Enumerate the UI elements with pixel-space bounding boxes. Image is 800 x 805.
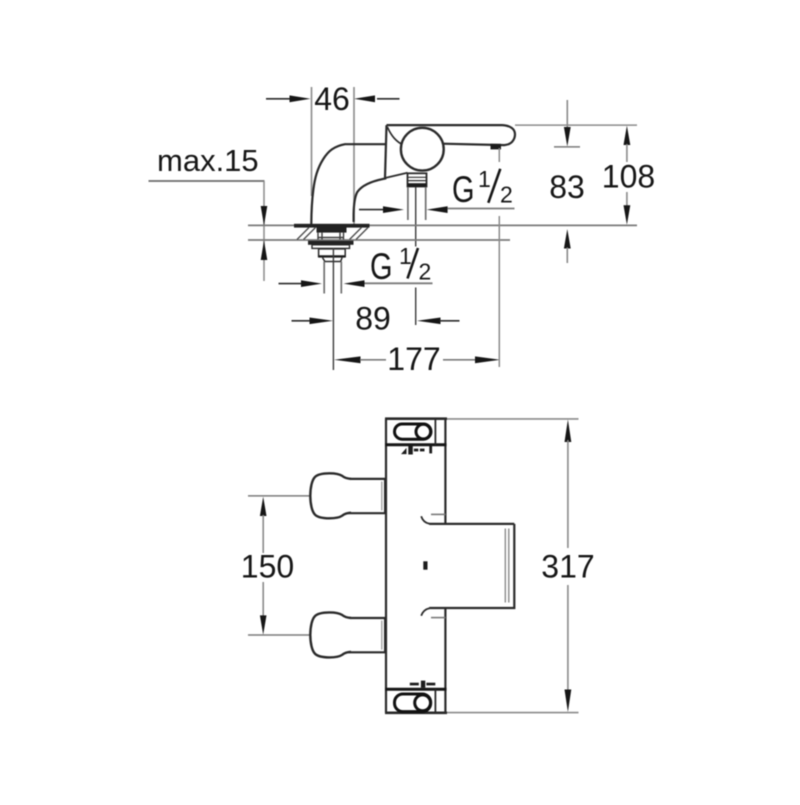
svg-text:150: 150 [241, 549, 294, 585]
dimension 177 dimension line right segment [443, 356, 500, 363]
deck top line [248, 224, 637, 226]
bottom bracket slot [395, 694, 431, 712]
deck hatching left [297, 228, 316, 240]
top bracket heavy separator [385, 443, 447, 446]
upper handle knob [310, 473, 351, 518]
svg-text:108: 108 [602, 159, 655, 195]
extension block top edge [429, 523, 514, 525]
dimension 46 right extension line / spout right edge [353, 87, 355, 225]
dimension 89 right arrow [417, 318, 460, 325]
upper handle neck inner line [381, 482, 383, 511]
top fillet tick [431, 513, 446, 515]
bottom marker cluster [410, 681, 436, 688]
dimension 150 line lower segment [260, 582, 267, 635]
housing bottom edge [385, 173, 408, 178]
dimension 317 top extension line [447, 418, 579, 420]
svg-text:2: 2 [500, 182, 513, 208]
spout inner curve [354, 178, 387, 222]
dimension 108 upper arrow [624, 126, 631, 162]
deck hatching right [350, 228, 369, 240]
dimension 108 top extension line [515, 124, 637, 126]
top marker cluster [401, 446, 432, 455]
dimension 108 lower arrow [624, 192, 631, 225]
top fillet arc [421, 516, 429, 524]
taper below lock nut [323, 258, 343, 262]
faucet body top line [387, 124, 503, 126]
max.15 leader underline [149, 180, 265, 182]
svg-text:177: 177 [387, 341, 440, 377]
knob circle [401, 128, 444, 171]
bottom bracket circle [415, 695, 431, 711]
dimension 83 upper arrow [564, 100, 571, 147]
extension block inner double line [505, 529, 509, 603]
dimension 177 dimension line left segment [334, 356, 386, 363]
dimension 317 bottom extension line [447, 712, 579, 714]
nut below knob [408, 173, 427, 186]
lower G 1/2 left arrow [279, 280, 323, 287]
bottom bracket inner vertical [434, 689, 436, 713]
threaded shank in hole [317, 227, 347, 232]
svg-text:1: 1 [399, 243, 412, 269]
svg-text:89: 89 [355, 301, 391, 337]
upper handle centerline [248, 495, 310, 497]
svg-text:G: G [452, 169, 475, 210]
deck bottom line [248, 239, 510, 241]
svg-text:max.15: max.15 [157, 143, 259, 178]
top bracket circle [416, 424, 431, 439]
upper handle neck [345, 479, 386, 513]
bottom bracket heavy separator [385, 688, 447, 691]
max.15 up arrow [261, 241, 268, 261]
bottom fillet arc [421, 608, 429, 616]
body bar outline [386, 419, 445, 713]
dimension 46 left extension line [311, 87, 313, 196]
dimension 150 line upper segment [260, 497, 267, 553]
max.15 down arrow [261, 206, 268, 226]
upper G 1/2 right arrow with tail [427, 206, 515, 213]
top bracket inner vertical [434, 419, 436, 445]
outlet extension line [498, 148, 500, 367]
backnut [308, 241, 354, 245]
escutcheon flange [294, 224, 370, 228]
dimension 83 outlet reference line [554, 146, 580, 148]
upper G 1/2 left arrow [359, 206, 404, 213]
svg-text:317: 317 [541, 549, 594, 585]
shoulder curve between front edge and knob [387, 127, 403, 145]
dimension 46 left arrow [266, 95, 311, 102]
dimension 317 lower arrow and line [565, 585, 572, 712]
svg-text:1: 1 [478, 166, 491, 192]
svg-text:83: 83 [549, 169, 585, 205]
lower handle knob [310, 612, 351, 657]
lower G 1/2 right arrow with tail [344, 280, 433, 287]
max.15 extension line [263, 181, 265, 281]
svg-text:G: G [370, 246, 393, 287]
top bracket slot [395, 424, 432, 439]
dimension 89 left arrow [292, 318, 334, 325]
upper G 1/2 label [452, 166, 513, 210]
shank tube walls [318, 233, 344, 240]
tailpiece tube walls [324, 262, 341, 294]
body bottom edge thick [385, 711, 447, 714]
pipe walls below nut [408, 187, 426, 220]
tailpiece centerline [332, 248, 334, 370]
lower handle neck inner line [381, 621, 383, 650]
bottom fillet tick [431, 617, 446, 619]
pipe centerline [415, 187, 417, 325]
spout outlet [491, 144, 502, 150]
temperature marker on body [423, 561, 427, 569]
dimension 83 lower arrow [564, 229, 571, 263]
faucet front edge [385, 125, 387, 178]
dimension 317 upper arrow and line [565, 420, 572, 549]
spout top curve [311, 144, 386, 224]
washer below backnut [312, 245, 350, 249]
lock nut [319, 249, 346, 257]
lower handle neck [345, 618, 386, 652]
svg-text:46: 46 [314, 81, 350, 117]
lower handle centerline [248, 634, 310, 636]
svg-text:2: 2 [419, 259, 432, 285]
extension block right edge [429, 524, 514, 608]
dimension 46 right arrow [354, 95, 400, 102]
lever rounded right end [443, 125, 515, 145]
body top edge thick [385, 417, 447, 420]
lower G 1/2 label [370, 243, 431, 287]
